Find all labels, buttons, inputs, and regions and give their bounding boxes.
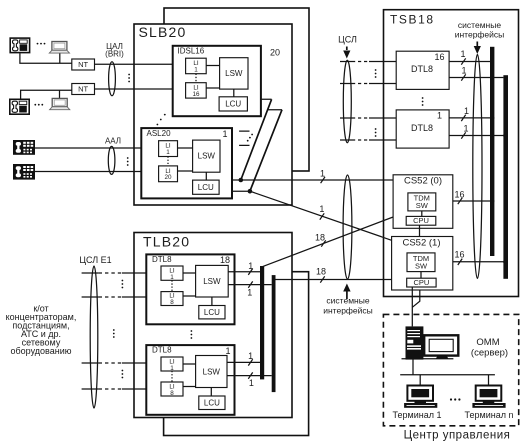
svg-text:NT: NT <box>78 60 88 69</box>
svg-text:LCU: LCU <box>225 100 241 109</box>
svg-text:DTL8: DTL8 <box>152 255 172 264</box>
svg-text:(BRI): (BRI) <box>105 50 124 59</box>
svg-text:1: 1 <box>170 365 174 372</box>
svg-text:1: 1 <box>222 129 227 139</box>
svg-text:LSW: LSW <box>203 277 221 286</box>
svg-text:NT: NT <box>78 85 88 94</box>
svg-text:16: 16 <box>192 91 200 98</box>
svg-text:CPU: CPU <box>413 278 429 287</box>
svg-text:DTL8: DTL8 <box>152 346 172 355</box>
svg-text:1: 1 <box>464 106 469 116</box>
svg-text:LSW: LSW <box>198 152 216 161</box>
svg-text:16: 16 <box>454 190 464 200</box>
svg-text:CPU: CPU <box>413 216 429 225</box>
svg-text:Терминал 1: Терминал 1 <box>393 410 442 420</box>
svg-text:1: 1 <box>463 124 468 134</box>
svg-text:16: 16 <box>454 250 464 260</box>
svg-text:1: 1 <box>320 169 325 179</box>
svg-text:интерфейсы: интерфейсы <box>323 306 373 316</box>
svg-text:Центр управления: Центр управления <box>404 430 511 442</box>
svg-text:ЦСЛ E1: ЦСЛ E1 <box>79 255 111 265</box>
svg-text:SLB20: SLB20 <box>139 24 187 40</box>
svg-text:DTL8: DTL8 <box>411 123 433 133</box>
svg-text:1: 1 <box>437 111 442 121</box>
svg-text:1: 1 <box>166 149 170 156</box>
svg-text:TLB20: TLB20 <box>143 234 190 250</box>
svg-text:ОММ: ОММ <box>476 337 499 348</box>
svg-text:CS52 (0): CS52 (0) <box>404 176 442 187</box>
svg-text:оборудованию: оборудованию <box>11 346 72 356</box>
svg-text:LCU: LCU <box>198 183 214 192</box>
svg-text:DTL8: DTL8 <box>411 64 433 74</box>
svg-text:1: 1 <box>194 67 198 74</box>
svg-text:1: 1 <box>249 378 254 388</box>
svg-text:LCU: LCU <box>204 399 220 408</box>
svg-text:8: 8 <box>170 390 174 397</box>
svg-text:1: 1 <box>460 49 465 59</box>
svg-text:ЦСЛ: ЦСЛ <box>338 35 357 45</box>
svg-text:8: 8 <box>170 299 174 306</box>
svg-text:LSW: LSW <box>203 368 221 377</box>
svg-text:1: 1 <box>247 288 252 298</box>
svg-text:системные: системные <box>326 296 369 306</box>
svg-text:интерфейсы: интерфейсы <box>455 30 505 40</box>
svg-text:(сервер): (сервер) <box>471 348 508 359</box>
svg-text:18: 18 <box>316 267 326 277</box>
svg-text:LSW: LSW <box>225 69 243 78</box>
svg-text:SW: SW <box>416 201 429 210</box>
svg-text:1: 1 <box>225 346 230 356</box>
svg-text:20: 20 <box>164 174 172 181</box>
svg-text:20: 20 <box>270 48 280 58</box>
svg-text:LCU: LCU <box>204 308 220 317</box>
svg-text:18: 18 <box>220 255 230 265</box>
svg-text:SW: SW <box>415 261 428 270</box>
svg-text:ААЛ: ААЛ <box>105 137 121 146</box>
svg-text:Терминал n: Терминал n <box>465 410 514 420</box>
svg-text:ASL20: ASL20 <box>147 129 172 138</box>
svg-text:системные: системные <box>458 20 501 30</box>
svg-text:18: 18 <box>315 233 325 243</box>
svg-text:1: 1 <box>461 66 466 76</box>
svg-text:16: 16 <box>434 52 444 62</box>
svg-text:CS52 (1): CS52 (1) <box>402 238 440 249</box>
svg-text:1: 1 <box>170 274 174 281</box>
svg-text:1: 1 <box>248 261 253 271</box>
svg-text:1: 1 <box>319 204 324 214</box>
svg-text:IDSL16: IDSL16 <box>178 47 205 56</box>
svg-text:1: 1 <box>248 351 253 361</box>
svg-text:TSB18: TSB18 <box>390 13 435 27</box>
